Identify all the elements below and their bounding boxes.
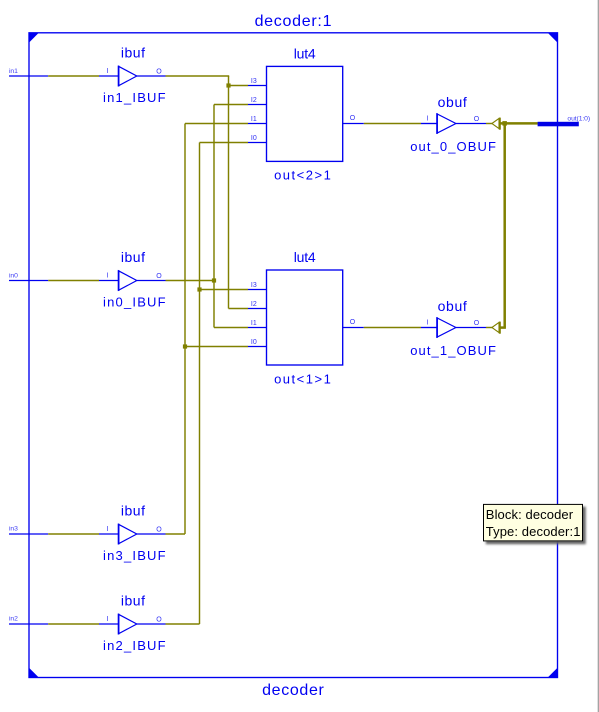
wire net in3_IBUF horizontal to column A: [166, 533, 186, 535]
svg-text:ibuf: ibuf: [121, 593, 146, 609]
svg-text:O: O: [350, 319, 356, 326]
window right border: [597, 0, 599, 712]
svg-text:in2_IBUF: in2_IBUF: [103, 638, 167, 653]
svg-text:ibuf: ibuf: [121, 503, 146, 519]
wire branch to lut4 out21 pin I2: [214, 104, 248, 106]
junction in2 net at lut4 out11 pin I3: [197, 287, 201, 291]
frame corner mark top-right: [548, 33, 558, 43]
frame corner mark top-left: [29, 33, 39, 43]
svg-text:O: O: [156, 69, 162, 76]
buffer obuf out_0_OBUF: [410, 94, 497, 154]
port in2: [9, 616, 48, 625]
bus out(1:0) thick segment: [538, 122, 579, 127]
wire net in2_IBUF vertical column B: [199, 143, 201, 625]
junction in0 net at column C: [212, 278, 216, 282]
svg-text:I: I: [107, 68, 109, 75]
wire net lut4 out11 O to obuf: [364, 327, 421, 329]
bus tap out_1: [486, 322, 501, 334]
svg-text:decoder: decoder: [262, 682, 324, 699]
wire net in0_IBUF vertical column C: [213, 105, 215, 328]
wire branch to lut4 out21 pin I0: [200, 142, 249, 144]
wire branch to lut4 out11 pin I0: [185, 346, 248, 348]
svg-text:in1_IBUF: in1_IBUF: [103, 90, 167, 105]
buffer obuf out_1_OBUF: [410, 298, 497, 358]
bus net thick horizontal out_0: [500, 122, 538, 125]
svg-text:in3: in3: [9, 526, 18, 533]
wire net in3_IBUF vertical column A: [184, 124, 186, 535]
buffer ibuf in3_IBUF: [99, 503, 167, 563]
wire branch to lut4 out21 pin I3: [229, 85, 249, 87]
wire branch to lut4 out11 pin I2: [229, 308, 249, 310]
wire net lut4 out21 O to obuf: [364, 123, 421, 125]
svg-text:Type: decoder:1: Type: decoder:1: [486, 524, 581, 539]
svg-text:Block: decoder: Block: decoder: [486, 507, 574, 522]
svg-text:in0: in0: [9, 273, 18, 280]
buffer ibuf in2_IBUF: [99, 593, 167, 653]
svg-text:I2: I2: [251, 97, 257, 104]
svg-text:decoder:1: decoder:1: [255, 13, 333, 30]
junction in1 net at I3 branch: [226, 83, 230, 87]
svg-text:out_1_OBUF: out_1_OBUF: [410, 343, 497, 358]
svg-text:O: O: [156, 527, 162, 534]
svg-text:obuf: obuf: [438, 298, 468, 314]
svg-text:O: O: [156, 617, 162, 624]
svg-text:ibuf: ibuf: [121, 45, 146, 61]
wire net in2 input lead: [48, 623, 99, 625]
wire net in0 input lead: [48, 280, 99, 282]
svg-text:obuf: obuf: [438, 94, 468, 110]
buffer ibuf in1_IBUF: [99, 45, 167, 105]
wire branch to lut4 out21 pin I1: [185, 123, 248, 125]
wire net in1_IBUF horizontal to column D: [166, 75, 230, 77]
wire net in1 input lead: [48, 75, 99, 77]
svg-text:in3_IBUF: in3_IBUF: [103, 548, 167, 563]
svg-text:in0_IBUF: in0_IBUF: [103, 294, 167, 309]
svg-text:I1: I1: [251, 320, 257, 327]
wire net in3 input lead: [48, 533, 99, 535]
svg-text:O: O: [474, 116, 480, 123]
svg-text:I: I: [427, 116, 429, 123]
wire net in2_IBUF horizontal to column B: [166, 623, 200, 625]
port in0: [9, 273, 48, 281]
svg-text:in2: in2: [9, 616, 18, 623]
buffer ibuf in0_IBUF: [99, 249, 167, 309]
bus tap out_0: [486, 118, 501, 130]
svg-text:I2: I2: [251, 301, 257, 308]
svg-text:O: O: [350, 115, 356, 122]
svg-text:out(1:0): out(1:0): [567, 116, 590, 123]
svg-text:O: O: [474, 320, 480, 327]
bus net thick vertical: [503, 123, 506, 327]
junction in3 net at lut4 out11 pin I0: [183, 344, 187, 348]
svg-text:I: I: [107, 526, 109, 533]
svg-text:I1: I1: [251, 116, 257, 123]
svg-text:lut4: lut4: [294, 249, 316, 265]
frame corner mark bottom-right: [548, 668, 558, 678]
port in1: [9, 68, 48, 76]
svg-text:out<1>1: out<1>1: [274, 372, 332, 387]
wire net in1_IBUF vertical column D: [228, 76, 230, 309]
wire branch to lut4 out11 pin I1: [214, 327, 248, 329]
svg-text:I: I: [107, 273, 109, 280]
svg-text:I0: I0: [251, 135, 257, 142]
wire branch to lut4 out11 pin I3: [200, 289, 249, 291]
svg-text:I0: I0: [251, 339, 257, 346]
svg-text:in1: in1: [9, 68, 18, 75]
svg-text:O: O: [156, 273, 162, 280]
svg-text:ibuf: ibuf: [121, 249, 146, 265]
port in3: [9, 526, 48, 535]
lut4 out<2>1: [248, 45, 364, 182]
bus net thick horizontal out_1: [500, 326, 506, 329]
svg-text:out<2>1: out<2>1: [274, 168, 332, 183]
frame corner mark bottom-left: [29, 668, 39, 678]
svg-text:lut4: lut4: [294, 45, 316, 61]
svg-text:I3: I3: [251, 78, 257, 85]
tooltip Block: decoder / Type: decoder:1: [484, 504, 583, 541]
svg-text:I: I: [427, 320, 429, 327]
svg-text:out_0_OBUF: out_0_OBUF: [410, 139, 497, 154]
svg-text:I: I: [107, 616, 109, 623]
junction bus net: [502, 121, 507, 126]
lut4 out<1>1: [248, 249, 364, 387]
wire net in0_IBUF horizontal to column C: [166, 280, 215, 282]
svg-text:I3: I3: [251, 282, 257, 289]
